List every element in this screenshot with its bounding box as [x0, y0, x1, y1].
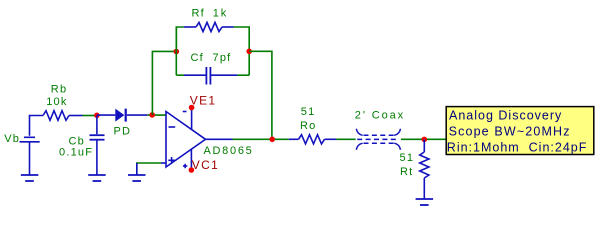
svg-text:VE1: VE1 — [190, 93, 217, 107]
node2 inverting-input junction dot — [149, 112, 155, 118]
photodiode PD — [97, 109, 147, 122]
resistor Rt — [420, 139, 429, 199]
svg-text:Analog Discovery: Analog Discovery — [449, 109, 562, 123]
ground (Rt) — [416, 199, 434, 205]
op-amp U1 AD8065 — [166, 112, 206, 169]
voltage source Vb — [20, 116, 44, 176]
pin VE1 supply — [191, 108, 193, 130]
wire PD to inverting node — [147, 114, 166, 116]
svg-text:Cf: Cf — [191, 52, 204, 64]
node VC1 dot — [189, 167, 195, 173]
resistor Rb — [43, 111, 83, 121]
svg-text:1k: 1k — [213, 8, 228, 20]
wire feedback right to output — [249, 51, 272, 139]
coax cable symbol — [356, 129, 400, 150]
wire output to node5 — [233, 138, 289, 140]
svg-text:Scope BW~20MHz: Scope BW~20MHz — [449, 125, 571, 139]
capacitor Cf — [184, 67, 237, 85]
node5 output junction dot — [269, 137, 275, 143]
wire coax to node6 — [401, 138, 446, 140]
node VE1 dot — [189, 105, 195, 111]
svg-text:0.1uF: 0.1uF — [59, 146, 93, 158]
output lead op-amp — [206, 138, 233, 140]
svg-text:Rf: Rf — [192, 8, 205, 20]
wire Rb to node1 — [83, 115, 97, 117]
wire Ro to coax — [336, 138, 355, 140]
svg-text:Vb: Vb — [4, 133, 20, 145]
node4 feedback-right junction dot — [246, 49, 252, 55]
svg-text:Rb: Rb — [51, 83, 67, 95]
svg-text:2' Coax: 2' Coax — [355, 110, 405, 122]
pin VC1 supply — [190, 149, 192, 170]
svg-text:51: 51 — [400, 152, 415, 164]
capacitor Cb — [90, 116, 105, 176]
wire feedback from node2 up and right — [152, 51, 176, 115]
annotation box Analog Discovery — [446, 107, 594, 155]
wire Cf right — [237, 74, 249, 76]
svg-text:Rt: Rt — [400, 166, 413, 178]
node3 feedback-left junction dot — [174, 49, 180, 55]
svg-text:51: 51 — [301, 106, 316, 118]
ground (noninverting input) — [128, 175, 146, 181]
node1 junction dot — [94, 113, 100, 119]
ground (Vb) — [21, 175, 39, 181]
wire feedback loop left vertical — [175, 27, 177, 75]
resistor Rf — [184, 22, 234, 31]
svg-text:PD: PD — [114, 126, 132, 138]
svg-text:AD8065: AD8065 — [204, 145, 254, 157]
svg-text:Ro: Ro — [300, 120, 316, 132]
resistor Ro — [289, 135, 337, 144]
node6 junction dot — [422, 137, 428, 143]
svg-text:7pf: 7pf — [213, 52, 232, 64]
svg-text:10k: 10k — [46, 96, 67, 108]
ground (Cb) — [88, 175, 106, 181]
wire Rf top right — [234, 27, 250, 75]
svg-text:Rin:1Mohm Cin:24pF: Rin:1Mohm Cin:24pF — [447, 141, 588, 155]
wire noninverting input to ground — [137, 163, 166, 175]
wire Rf top left — [176, 27, 184, 51]
svg-text:VC1: VC1 — [192, 158, 219, 172]
wire Cf left — [176, 74, 184, 76]
